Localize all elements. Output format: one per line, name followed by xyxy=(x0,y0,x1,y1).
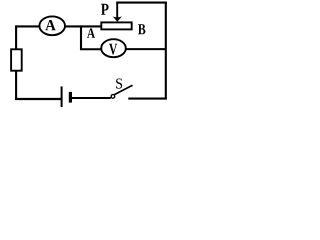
battery short plate (negative) xyxy=(69,92,72,103)
wire: battery to switch xyxy=(72,97,111,99)
wire: bottom-right run from switch to right vertical xyxy=(128,98,167,100)
ammeter label A xyxy=(45,20,55,30)
switch S pivot xyxy=(111,95,115,99)
label A (rheostat left terminal) xyxy=(87,28,95,37)
rheostat wiper arrowhead xyxy=(113,16,122,21)
battery long plate (positive) xyxy=(61,86,63,107)
voltmeter label V xyxy=(109,44,117,55)
wire: left vertical run xyxy=(15,25,17,100)
wire: bottom-left run to battery xyxy=(15,98,61,100)
rheostat wiper stem xyxy=(116,3,118,19)
voltmeter U2 body xyxy=(101,39,126,57)
label S xyxy=(116,79,122,89)
switch S lever xyxy=(114,85,132,94)
label B (rheostat right terminal) xyxy=(138,24,145,34)
wire: top-right run from wiper to right vertical xyxy=(116,2,167,4)
label P xyxy=(101,4,109,15)
wire: voltmeter right lead to right vertical xyxy=(124,48,166,50)
wire: junction drop from top run down to voltmeter xyxy=(80,25,82,49)
wire: right vertical run xyxy=(165,2,167,100)
ammeter U1 body xyxy=(39,16,65,35)
wire: top run from left corner to rheostat terminal A xyxy=(16,25,102,27)
wire: voltmeter left lead xyxy=(80,48,103,50)
rheostat P body xyxy=(101,22,131,29)
resistor R (left branch) xyxy=(11,49,22,70)
